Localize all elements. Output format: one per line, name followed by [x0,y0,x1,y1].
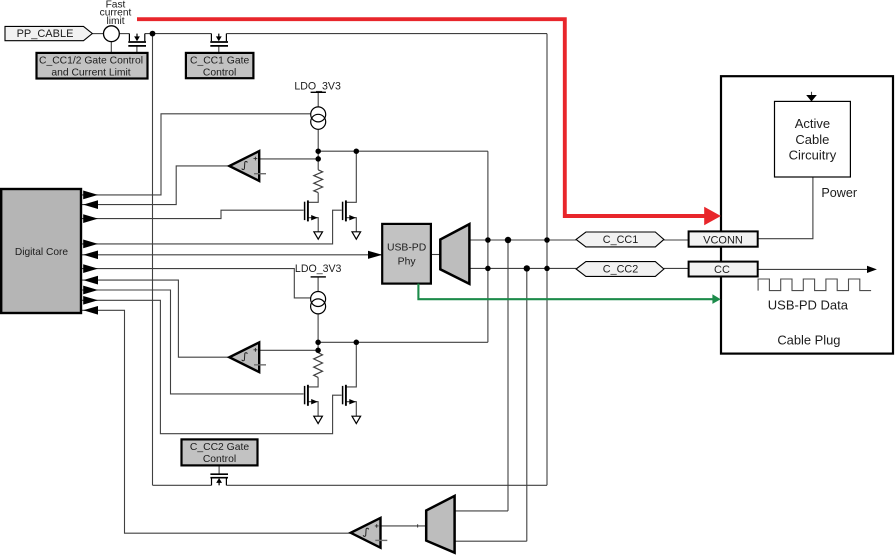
svg-text:C_CC2 Gate: C_CC2 Gate [190,442,249,453]
svg-text:Active: Active [795,116,830,131]
svg-text:Cable: Cable [795,132,829,147]
svg-text:CC: CC [714,264,730,276]
svg-text:Control: Control [203,454,236,465]
svg-text:LDO_3V3: LDO_3V3 [294,80,341,92]
svg-text:USB-PD Data: USB-PD Data [768,297,849,312]
svg-text:Digital Core: Digital Core [15,247,69,258]
svg-text:LDO_3V3: LDO_3V3 [295,263,342,275]
svg-text:Power: Power [821,186,857,200]
svg-text:C_CC1 Gate: C_CC1 Gate [190,56,249,67]
svg-text:C_CC2: C_CC2 [603,264,638,276]
svg-text:C_CC1/2 Gate Control: C_CC1/2 Gate Control [39,56,143,67]
svg-text:USB-PD: USB-PD [387,242,426,253]
svg-text:PP_CABLE: PP_CABLE [17,28,74,40]
svg-text:Circuitry: Circuitry [789,148,837,163]
svg-text:limit: limit [106,16,124,27]
svg-text:Cable Plug: Cable Plug [777,333,840,348]
svg-text:VCONN: VCONN [703,234,743,246]
svg-text:Control: Control [203,67,236,78]
svg-text:and Current Limit: and Current Limit [51,67,130,78]
svg-text:Phy: Phy [398,256,417,267]
svg-text:C_CC1: C_CC1 [603,234,638,246]
